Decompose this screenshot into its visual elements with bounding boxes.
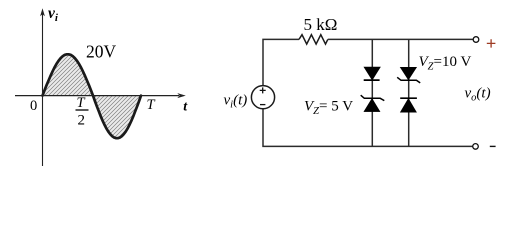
zener Z2 bar with bent ends — [397, 77, 420, 83]
x axis arrowhead — [177, 93, 186, 98]
wire top from resistor to + terminal — [328, 38, 473, 40]
wire bottom from source to - terminal — [263, 109, 473, 147]
wire top-left from source to resistor — [263, 39, 299, 85]
output + sign — [487, 39, 496, 47]
svg-text:T: T — [77, 95, 86, 111]
svg-text:vo(t): vo(t) — [465, 86, 491, 104]
svg-text:2: 2 — [78, 113, 86, 129]
diode D2 (bottom, anode down) cathode bar — [400, 97, 417, 99]
diode D1 cathode bar — [364, 79, 380, 81]
diode D2 triangle (pointing up) — [400, 99, 416, 113]
output terminal - (bottom right) — [473, 144, 479, 150]
svg-text:t: t — [183, 100, 188, 115]
svg-text:VZ= 5 V: VZ= 5 V — [304, 99, 353, 118]
output terminal + (top right) — [473, 37, 479, 43]
branch 1 vertical wire — [371, 39, 373, 146]
svg-text:0: 0 — [30, 98, 37, 114]
resistor 5k zigzag — [299, 35, 328, 44]
source + polarity — [260, 87, 266, 93]
sine waveform outline — [43, 54, 142, 138]
diode D1 (top, cathode down) triangle — [364, 67, 380, 80]
zener Z1 (bottom, 5V) bar with bent ends — [361, 95, 385, 100]
zener Z1 triangle (pointing up) — [364, 99, 380, 112]
branch 2 vertical wire — [408, 39, 410, 146]
svg-text:T: T — [147, 97, 156, 113]
zener Z2 (top, 10V) triangle (pointing down) — [400, 67, 416, 80]
svg-text:vi: vi — [48, 5, 59, 24]
svg-text:20V: 20V — [86, 42, 117, 62]
voltage source vi(t) — [251, 86, 274, 109]
svg-text:VZ=10 V: VZ=10 V — [419, 54, 472, 73]
output - sign — [490, 145, 496, 147]
svg-text:vi(t): vi(t) — [224, 93, 248, 111]
x axis (t axis) — [15, 95, 179, 97]
y axis (vi axis) — [42, 14, 44, 166]
y axis arrowhead — [40, 8, 45, 16]
svg-text:5 kΩ: 5 kΩ — [304, 15, 338, 34]
sine waveform fill (input signal area) — [43, 54, 142, 138]
source - polarity — [260, 104, 265, 106]
label T/2 fraction bar — [76, 109, 89, 111]
